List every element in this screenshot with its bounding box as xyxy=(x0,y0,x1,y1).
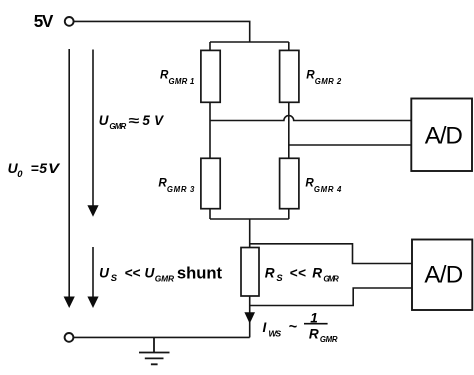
arrowhead U0 xyxy=(64,297,75,309)
wire U_GMR voltage arrow line xyxy=(92,50,94,207)
svg-text:A/D: A/D xyxy=(424,261,463,288)
resistor R_GMR1 xyxy=(201,50,220,102)
svg-text:UGMR≈5V: UGMR≈5V xyxy=(99,113,164,131)
arrowhead I_WS current xyxy=(244,312,255,323)
svg-text:RGMR 4: RGMR 4 xyxy=(305,177,342,194)
wire 5V terminal to bridge top tap xyxy=(74,21,250,42)
svg-text:RGMR 3: RGMR 3 xyxy=(158,177,195,194)
arrowhead U_GMR xyxy=(87,205,98,217)
svg-text:RGMR 1: RGMR 1 xyxy=(160,69,194,86)
svg-text:5V: 5V xyxy=(34,11,54,31)
label fraction bar of 1/R_GMR xyxy=(304,323,328,325)
wire U0 voltage arrow line xyxy=(68,49,70,297)
wire stub R_GMR4 to bottom bar xyxy=(288,209,290,219)
wire bottom rail xyxy=(74,336,250,338)
node 5V terminal (open circle) xyxy=(65,17,74,26)
wire stub R_GMR3 to bottom bar xyxy=(209,209,211,219)
svg-text:IWS~1RGMR: IWS~1RGMR xyxy=(263,310,338,344)
wire shunt top sense tap to A/D 2 xyxy=(250,244,412,264)
wire stub top bar to R_GMR1 xyxy=(209,42,211,51)
resistor R_GMR4 xyxy=(280,158,299,208)
resistor R_GMR3 xyxy=(201,158,220,208)
svg-text:A/D: A/D xyxy=(425,122,463,149)
wire right bridge branch R_GMR2 to R_GMR4 xyxy=(288,102,290,158)
wire bridge bottom bar xyxy=(210,218,289,220)
A/D converter U2 (shunt) xyxy=(412,240,472,311)
svg-text:U0=5V: U0=5V xyxy=(8,160,61,179)
node bottom terminal (open circle) xyxy=(65,333,74,342)
svg-text:US<<UGMRshunt: US<<UGMRshunt xyxy=(99,264,222,284)
wire bridge top bar xyxy=(210,41,289,43)
arrowhead U_S xyxy=(87,297,98,309)
wire right bridge output to A/D 1 xyxy=(289,144,412,146)
svg-text:RS<<RGMR: RS<<RGMR xyxy=(265,265,339,283)
resistor R_GMR2 xyxy=(280,50,299,102)
wire U_S voltage arrow line xyxy=(92,247,94,297)
ground xyxy=(139,337,170,364)
wire left bridge branch R_GMR1 to R_GMR3 xyxy=(209,102,211,158)
wire stub top bar to R_GMR2 xyxy=(288,42,290,51)
wire shunt bottom sense tap to A/D 2 xyxy=(250,288,412,306)
A/D converter U1 (bridge) xyxy=(411,99,472,172)
wire left bridge output to A/D 1 (with hop over right branch) xyxy=(210,116,411,121)
resistor R_S shunt xyxy=(241,248,259,297)
svg-text:RGMR 2: RGMR 2 xyxy=(306,69,342,86)
wire bridge bottom tap to shunt xyxy=(249,219,251,248)
wire shunt to bottom rail xyxy=(249,296,251,337)
